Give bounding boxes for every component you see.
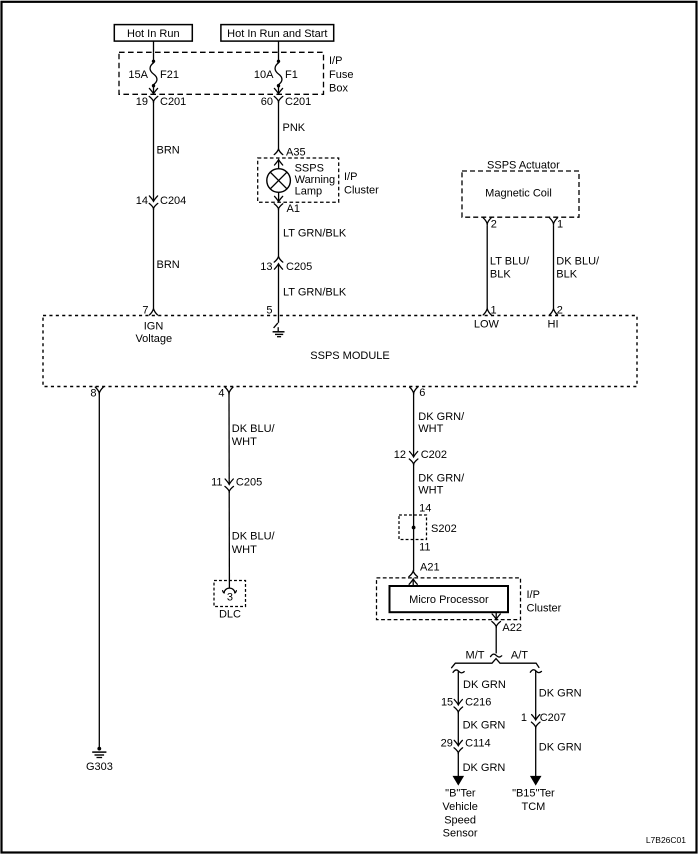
wire PNK from C201 to A35	[278, 101, 280, 149]
connector A1	[274, 204, 283, 209]
svg-text:PNK: PNK	[283, 122, 306, 134]
wire DK GRN C207 to TCM	[535, 727, 537, 777]
option squiggle at A22 wire end	[491, 654, 502, 657]
svg-text:1: 1	[491, 304, 497, 316]
svg-text:Lamp: Lamp	[295, 186, 323, 198]
svg-text:Warning: Warning	[295, 174, 336, 186]
connector A21	[409, 571, 418, 577]
svg-text:G303: G303	[86, 761, 113, 773]
svg-text:DK GRN: DK GRN	[463, 679, 506, 691]
svg-text:Hot In Run and Start: Hot In Run and Start	[227, 28, 327, 40]
module pin 4	[225, 387, 233, 393]
DLC dashed box	[214, 581, 246, 607]
wire LT GRN/BLK from A1 to C205	[278, 209, 280, 257]
wire module pin 8 to G303	[98, 393, 100, 748]
svg-text:Fuse: Fuse	[329, 69, 353, 81]
svg-text:I/P: I/P	[344, 171, 357, 183]
connector C201 pin 19	[149, 96, 158, 101]
header box Hot In Run	[114, 25, 192, 41]
svg-text:SSPS MODULE: SSPS MODULE	[310, 350, 389, 362]
svg-text:14: 14	[419, 502, 431, 514]
svg-text:C114: C114	[465, 738, 490, 750]
pin arrow into micro processor	[409, 579, 417, 584]
wire BRN from C204 to module pin 7	[153, 208, 155, 308]
pin arrow into lamp from A35	[275, 160, 283, 165]
DLC terminal 3 receptacle	[223, 588, 237, 593]
svg-text:TCM: TCM	[521, 801, 545, 813]
fuse F1 10A	[278, 52, 280, 61]
svg-text:LT GRN/BLK: LT GRN/BLK	[283, 287, 347, 299]
svg-text:WHT: WHT	[418, 423, 443, 435]
wire A22 down to transmission option split	[495, 627, 497, 654]
wire LT BLU/BLK coil pin2 to module LOW	[486, 225, 488, 309]
svg-text:BRN: BRN	[157, 145, 180, 157]
svg-text:12: 12	[394, 449, 406, 461]
svg-text:BRN: BRN	[157, 259, 180, 271]
svg-text:Cluster: Cluster	[527, 602, 562, 614]
svg-text:15A: 15A	[128, 69, 148, 81]
svg-text:DK GRN: DK GRN	[539, 687, 582, 699]
module pin 1 LOW	[483, 309, 491, 315]
SSPS MODULE dashed box	[43, 316, 637, 387]
svg-text:I/P: I/P	[329, 55, 342, 67]
fuse F21 15A	[153, 52, 155, 61]
svg-text:A21: A21	[420, 562, 440, 574]
svg-text:11: 11	[211, 476, 222, 488]
svg-text:A35: A35	[286, 147, 306, 159]
svg-text:1: 1	[557, 218, 563, 230]
svg-text:2: 2	[557, 304, 563, 316]
svg-text:C216: C216	[465, 697, 491, 709]
svg-text:29: 29	[441, 738, 453, 750]
svg-text:8: 8	[90, 388, 96, 400]
svg-text:C201: C201	[160, 96, 186, 108]
wire DK GRN A/T branch to C207	[535, 671, 537, 720]
svg-text:Sensor: Sensor	[443, 828, 478, 840]
internal ground at module pin 5	[278, 316, 280, 323]
svg-text:DK GRN: DK GRN	[463, 720, 506, 732]
wire DK GRN/WHT module pin 6 to C202	[413, 393, 415, 457]
svg-text:15: 15	[441, 697, 453, 709]
svg-text:A1: A1	[287, 203, 300, 215]
svg-text:DK BLU/: DK BLU/	[232, 423, 276, 435]
Micro Processor box	[390, 586, 509, 612]
wire BRN from C201 to C204	[153, 101, 155, 201]
svg-text:"B15"Ter: "B15"Ter	[512, 788, 555, 800]
connector C205 pin 11	[225, 479, 233, 484]
svg-text:DK GRN/: DK GRN/	[418, 411, 465, 423]
wire from Hot In Run to I/P fuse box	[153, 41, 155, 52]
svg-text:13: 13	[260, 261, 272, 273]
svg-text:4: 4	[218, 388, 224, 400]
option split brace	[452, 659, 539, 668]
wire DK BLU/WHT C205 to DLC	[228, 492, 230, 589]
Magnetic Coil dashed box	[462, 171, 579, 217]
svg-text:LT GRN/BLK: LT GRN/BLK	[283, 228, 347, 240]
svg-text:WHT: WHT	[232, 436, 257, 448]
svg-text:6: 6	[419, 387, 425, 399]
svg-text:"B"Ter: "B"Ter	[445, 788, 476, 800]
svg-text:Micro Processor: Micro Processor	[409, 594, 489, 606]
I/P Cluster dashed box around SSPS warning lamp	[258, 158, 339, 202]
svg-text:Magnetic Coil: Magnetic Coil	[485, 188, 552, 200]
svg-text:DK GRN: DK GRN	[463, 762, 506, 774]
connector C204 pin 14	[149, 196, 157, 201]
pin arrow out of micro processor to A22	[495, 612, 497, 619]
connector A35	[274, 149, 283, 155]
wire LT GRN/BLK from C205 to module pin 5	[278, 264, 280, 316]
wire DK GRN C114 to vehicle speed sensor	[457, 753, 459, 777]
svg-text:Cluster: Cluster	[344, 185, 379, 197]
svg-text:LT BLU/: LT BLU/	[490, 255, 530, 267]
wire DK GRN C216 to C114	[457, 712, 459, 746]
I/P Fuse Box dashed enclosure	[119, 52, 324, 94]
I/P Cluster dashed box around Micro Processor	[377, 578, 521, 620]
svg-text:S202: S202	[431, 523, 457, 535]
svg-text:10A: 10A	[254, 69, 274, 81]
connector C216 pin 15	[454, 700, 462, 705]
wire DK BLU/WHT module pin 4 to C205	[228, 393, 230, 479]
svg-text:DK GRN/: DK GRN/	[418, 472, 465, 484]
svg-text:WHT: WHT	[418, 484, 443, 496]
ground G303	[97, 747, 101, 751]
arrow to vehicle speed sensor	[453, 776, 463, 784]
svg-text:Speed: Speed	[444, 814, 476, 826]
svg-text:F1: F1	[285, 69, 298, 81]
splice S202 dashed box	[399, 515, 427, 540]
svg-text:Voltage: Voltage	[135, 333, 172, 345]
svg-text:BLK: BLK	[556, 269, 577, 281]
svg-text:IGN: IGN	[144, 320, 164, 332]
svg-text:C205: C205	[236, 476, 262, 488]
svg-text:C204: C204	[160, 195, 186, 207]
svg-text:C202: C202	[421, 449, 447, 461]
arrow to TCM	[531, 776, 541, 784]
svg-text:11: 11	[419, 541, 430, 553]
svg-text:DK GRN: DK GRN	[539, 741, 582, 753]
svg-text:19: 19	[136, 96, 148, 108]
svg-text:M/T: M/T	[466, 650, 485, 662]
svg-text:SSPS: SSPS	[295, 163, 324, 175]
svg-text:Hot In Run: Hot In Run	[127, 28, 180, 40]
svg-text:L7B26C01: L7B26C01	[646, 835, 686, 845]
option squiggle at M/T branch top	[453, 670, 464, 673]
svg-text:C205: C205	[286, 261, 312, 273]
module pin 8	[95, 387, 103, 393]
svg-text:DK BLU/: DK BLU/	[556, 255, 600, 267]
pin arrow out of lamp to A1	[278, 192, 280, 201]
svg-text:1: 1	[521, 712, 527, 724]
svg-text:F21: F21	[160, 69, 179, 81]
svg-text:2: 2	[491, 218, 497, 230]
wire DK GRN/WHT C202 to S202	[413, 464, 415, 571]
header box Hot In Run and Start	[221, 25, 334, 41]
connector C205 pin 13	[274, 257, 283, 263]
connector C201 pin 60	[274, 96, 283, 101]
svg-text:Box: Box	[329, 82, 348, 94]
svg-text:BLK: BLK	[490, 269, 511, 281]
SSPS warning lamp bulb symbol	[267, 169, 291, 193]
magnetic coil pin 1	[550, 218, 558, 224]
wire DK GRN M/T branch to C216	[457, 671, 459, 705]
svg-text:WHT: WHT	[232, 544, 257, 556]
svg-text:I/P: I/P	[527, 589, 540, 601]
svg-text:DK BLU/: DK BLU/	[232, 531, 276, 543]
svg-text:60: 60	[261, 96, 273, 108]
svg-text:A/T: A/T	[511, 650, 528, 662]
svg-text:3: 3	[227, 591, 233, 603]
svg-text:C201: C201	[285, 96, 311, 108]
connector C202 pin 12	[410, 452, 418, 457]
module pin 7	[150, 309, 158, 315]
module pin 6	[410, 387, 418, 393]
wire from Hot In Run and Start to I/P fuse box	[278, 41, 280, 52]
svg-text:A22: A22	[502, 622, 522, 634]
option squiggle at A/T branch top	[530, 670, 541, 673]
svg-text:LOW: LOW	[474, 319, 500, 331]
splice S202 junction dot	[412, 526, 416, 530]
svg-text:14: 14	[136, 195, 148, 207]
svg-text:DLC: DLC	[219, 608, 241, 620]
svg-text:SSPS Actuator: SSPS Actuator	[487, 159, 560, 171]
connector C207 pin 1	[532, 715, 540, 720]
connector A22	[492, 622, 501, 627]
wire DK BLU/BLK coil pin1 to module HI	[553, 225, 555, 309]
connector C114 pin 29	[454, 740, 462, 745]
svg-text:C207: C207	[540, 712, 566, 724]
magnetic coil pin 2	[483, 218, 491, 224]
module pin 2 HI	[550, 309, 558, 315]
svg-text:HI: HI	[548, 319, 559, 331]
svg-text:Vehicle: Vehicle	[442, 801, 477, 813]
